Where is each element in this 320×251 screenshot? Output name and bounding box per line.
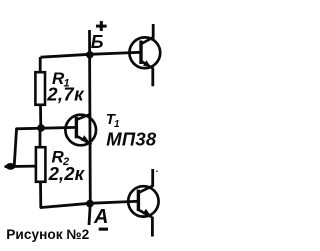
svg-text:2,7к: 2,7к: [46, 84, 85, 105]
svg-text:Б: Б: [91, 32, 104, 52]
svg-text:Рисунок №2: Рисунок №2: [6, 227, 89, 242]
svg-text:МП38: МП38: [106, 128, 157, 149]
svg-text:А: А: [93, 206, 108, 228]
svg-text:2,2к: 2,2к: [48, 163, 86, 184]
